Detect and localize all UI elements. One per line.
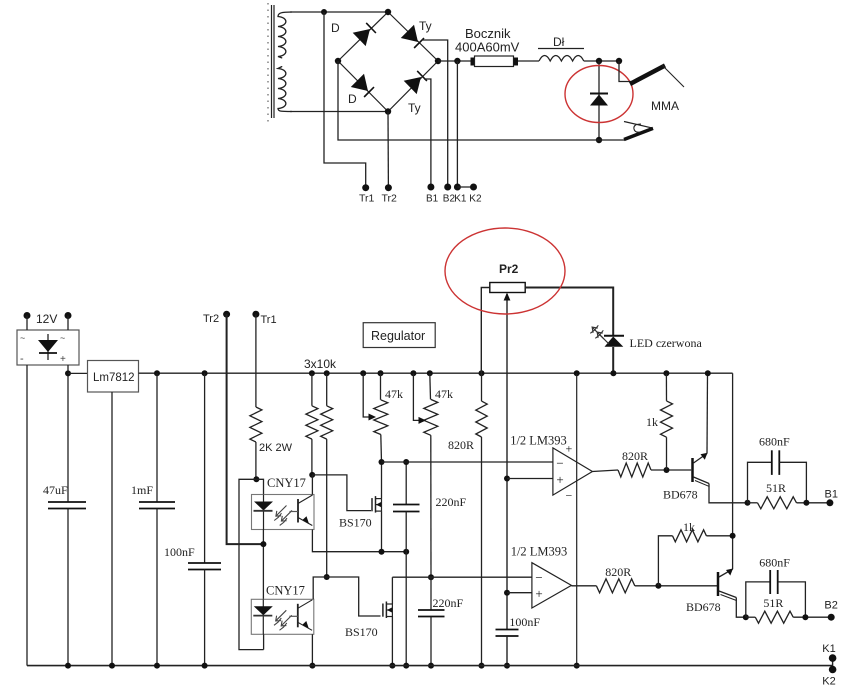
- wire comparator1 output: [592, 470, 618, 472]
- svg-text:CNY17: CNY17: [266, 584, 305, 598]
- resistor 10k #2: [324, 370, 330, 376]
- node junction top wire to Tr1: [321, 9, 327, 15]
- svg-text:Pr2: Pr2: [499, 262, 519, 276]
- svg-text:B1: B1: [426, 194, 439, 205]
- resistor 10k #1: [309, 370, 315, 376]
- wiper arrow 47k#1: [360, 370, 366, 376]
- svg-text:BD678: BD678: [663, 488, 698, 502]
- node bridge right: [435, 58, 441, 64]
- op-amp U1 1/2 LM393 (upper): [553, 448, 593, 495]
- svg-text:Regulator: Regulator: [371, 329, 425, 343]
- wire Ty1 gate to B2: [422, 40, 448, 187]
- svg-text:47k: 47k: [435, 387, 453, 401]
- node bridge plus to 7812 input: [65, 370, 71, 376]
- svg-text:820R: 820R: [622, 449, 648, 463]
- svg-text:−: −: [556, 456, 563, 471]
- svg-text:100nF: 100nF: [164, 545, 195, 559]
- wire 7812 ground lead: [111, 392, 113, 666]
- node source1: [379, 549, 385, 555]
- svg-text:+: +: [535, 586, 542, 601]
- wire comparator2 output: [571, 585, 596, 587]
- terminal Tr1 (top): [362, 184, 369, 191]
- node bridge left: [335, 58, 341, 64]
- svg-text:K1: K1: [454, 194, 467, 205]
- terminal K2 (top): [470, 184, 477, 191]
- terminal B2 (top): [444, 184, 451, 191]
- wire Pr2 left to rail: [481, 288, 490, 374]
- wire shunt to inductor: [518, 60, 539, 62]
- terminal Tr2 (top): [385, 184, 392, 191]
- wire BS170#1 source down: [381, 511, 383, 552]
- terminal Tr1 (bottom): [252, 311, 259, 318]
- svg-text:D: D: [331, 21, 340, 35]
- svg-text:1/2 LM393: 1/2 LM393: [510, 434, 567, 448]
- svg-text:Tr1: Tr1: [359, 193, 375, 205]
- resistor 820R (output 1): [618, 463, 651, 477]
- svg-text:+: +: [566, 442, 573, 456]
- wire BD678#2 collector to B2 line: [736, 598, 746, 618]
- wire opto1 cathode to node: [262, 530, 264, 600]
- svg-text:~: ~: [60, 333, 65, 343]
- wire Ty2 gate to B1: [424, 79, 431, 187]
- svg-text:+: +: [60, 354, 66, 365]
- terminal Tr2 (bottom): [223, 311, 230, 318]
- svg-text:1k: 1k: [646, 415, 658, 429]
- node opto2 emitter ground: [309, 663, 315, 669]
- node ground dots: [65, 663, 71, 669]
- wire LM393 supply vertical: [576, 373, 578, 665]
- wire Pr2 right to LED: [525, 288, 613, 336]
- resistor 47k #1: [378, 370, 384, 376]
- transformer T1: [268, 3, 292, 122]
- capacitor 220nF #2: [430, 577, 432, 610]
- node base1: [664, 467, 670, 473]
- svg-text:D: D: [348, 92, 357, 106]
- svg-text:Ty: Ty: [408, 101, 421, 115]
- wire gate1 path: [312, 475, 371, 511]
- node 10k1/collector1/gate1: [309, 472, 315, 478]
- svg-text:K1: K1: [822, 643, 835, 655]
- red circle around Pr2: [445, 228, 565, 314]
- svg-text:+: +: [556, 472, 563, 487]
- node freewheel diode top: [596, 58, 602, 64]
- resistor 820R (bleeder): [479, 370, 485, 376]
- svg-text:Lm7812: Lm7812: [93, 372, 135, 384]
- regulator Lm7812: [88, 361, 139, 393]
- svg-text:K2: K2: [469, 194, 482, 205]
- transistor BD678 #2: [717, 572, 720, 596]
- terminal B1 (top): [427, 184, 434, 191]
- transistor BS170 #1: [371, 498, 373, 511]
- shunt Bocznik 400A60mV: [471, 58, 476, 66]
- wire BS170#2 drain up: [391, 577, 393, 604]
- op-amp U2 1/2 LM393 (lower): [532, 563, 572, 608]
- node 47k2 / 220nF2 / minus2: [428, 574, 434, 580]
- resistor 1k #1: [663, 370, 669, 376]
- label Regulator: [363, 323, 435, 348]
- wire gate2 path: [327, 577, 381, 616]
- svg-text:51R: 51R: [766, 481, 786, 495]
- svg-text:680nF: 680nF: [759, 435, 790, 449]
- wire opto2 cathode bottom: [263, 634, 265, 649]
- wire +12V rail: [139, 372, 733, 374]
- svg-text:BS170: BS170: [339, 516, 372, 530]
- bridge rectifier 12V input box: [17, 330, 79, 365]
- svg-text:47uF: 47uF: [43, 483, 68, 497]
- node 220nF#2 ground: [428, 663, 434, 669]
- svg-text:2K 2W: 2K 2W: [259, 442, 293, 454]
- wire Tr2 top path: [387, 112, 389, 188]
- node 820R ground: [479, 663, 485, 669]
- node 220nF#1 ground: [403, 663, 409, 669]
- wire comparator1 plus input: [504, 476, 510, 482]
- svg-text:1/2 LM393: 1/2 LM393: [511, 545, 568, 559]
- terminal K1 (top): [454, 184, 461, 191]
- svg-text:400A60mV: 400A60mV: [455, 40, 520, 55]
- svg-text:-: -: [20, 353, 24, 365]
- resistor 2K 2W: [250, 407, 262, 442]
- wire anode jog into opto1: [256, 479, 263, 494]
- svg-text:B1: B1: [825, 489, 838, 501]
- svg-text:Tr2: Tr2: [203, 313, 219, 325]
- svg-text:B2: B2: [824, 600, 837, 612]
- transistor BD678 #1: [691, 458, 694, 482]
- wire bridge minus to ground rail: [26, 365, 28, 666]
- svg-text:820R: 820R: [605, 565, 631, 579]
- wire opto1 collector: [311, 475, 313, 495]
- node supply tap for comparators: [574, 370, 580, 376]
- svg-text:BS170: BS170: [345, 625, 378, 639]
- wire 820R1 to base: [651, 469, 691, 471]
- wire 7812 input: [68, 372, 88, 374]
- resistor 1k #2: [658, 536, 672, 586]
- svg-text:Tr1: Tr1: [261, 314, 277, 326]
- wire transformer bottom lead to bridge bottom node: [290, 111, 388, 113]
- resistor 51R #1: [748, 502, 758, 504]
- svg-text:12V: 12V: [36, 312, 57, 326]
- wire K1 vertical: [456, 61, 458, 187]
- optocoupler CNY17 #1: [252, 495, 315, 530]
- capacitor 47uF: [48, 501, 86, 503]
- terminal B2 (output): [828, 614, 835, 621]
- svg-text:1k: 1k: [683, 520, 695, 534]
- wire Tr1 top path: [324, 12, 366, 187]
- diode D1 (upper-left arm): [353, 29, 370, 46]
- electrode holder MMA: [630, 66, 665, 85]
- wire opto2 collector: [313, 577, 327, 599]
- node BS170#2 source ground: [389, 663, 395, 669]
- capacitor 100nF (wiper filter): [496, 629, 519, 631]
- snubber 680nF / 51R #1: [745, 500, 751, 506]
- resistor 820R (output 2): [596, 579, 634, 593]
- wire to electrode holder: [619, 61, 633, 82]
- svg-text:BD678: BD678: [686, 600, 721, 614]
- wire comparator1 minus input line: [382, 461, 553, 463]
- thyristor Ty1 (upper-right arm): [401, 25, 418, 42]
- wire Tr1 down to 2K2W: [255, 314, 257, 407]
- wire BD678#1 collector to B1 line: [709, 484, 748, 503]
- snubber 680nF / 51R #2: [743, 614, 749, 620]
- svg-text:Dł: Dł: [553, 35, 565, 49]
- svg-text:CNY17: CNY17: [267, 476, 306, 490]
- red circle around freewheel diode: [565, 66, 633, 123]
- svg-text:820R: 820R: [448, 438, 474, 452]
- svg-text:3x10k: 3x10k: [304, 357, 337, 371]
- capacitor 100nF (left): [202, 370, 208, 376]
- wire opto2 emitter to ground: [311, 634, 313, 665]
- node freewheel diode bottom: [596, 137, 602, 143]
- terminal 12V left: [24, 312, 31, 319]
- resistor 47k #2: [427, 370, 433, 376]
- wire BS170#2 source to ground: [391, 617, 393, 666]
- optocoupler CNY17 #2: [251, 599, 313, 634]
- wire rail end down to BD678#2 emitter: [732, 373, 734, 569]
- node minus line left end: [379, 459, 385, 465]
- node wiper ground: [504, 663, 510, 669]
- svg-text:220nF: 220nF: [436, 495, 467, 509]
- svg-text:Tr2: Tr2: [382, 193, 398, 205]
- LED czerwona: [604, 335, 624, 337]
- svg-text:220nF: 220nF: [433, 596, 464, 610]
- thyristor Ty2 (lower-right arm): [404, 77, 421, 94]
- freewheel diode (circled): [598, 61, 600, 140]
- wire bridge plus down / 47uF / ground: [67, 365, 69, 502]
- wire BD678#1 emitter to rail: [706, 373, 709, 453]
- node 1k2 to emitter line: [730, 533, 736, 539]
- diode D2 (lower-left arm): [351, 74, 368, 91]
- wire inductor to output node: [584, 60, 619, 62]
- node bridge bottom: [385, 108, 391, 114]
- terminal K1 (bottom): [832, 658, 834, 669]
- svg-text:−: −: [535, 570, 542, 585]
- terminal K2 (bottom): [829, 666, 837, 674]
- svg-text:Ty: Ty: [419, 19, 432, 33]
- svg-text:51R: 51R: [763, 596, 783, 610]
- terminal B1 (output): [826, 499, 833, 506]
- node 10k2/collector2/gate2: [324, 574, 330, 580]
- wire bridge diamond arms: [338, 12, 438, 112]
- wiper Pr2 down to comparators: [506, 294, 508, 630]
- svg-text:680nF: 680nF: [759, 555, 790, 569]
- svg-text:100nF: 100nF: [509, 615, 540, 629]
- node electrode branch: [616, 58, 622, 64]
- wire left return rail (anode1-cathode2): [239, 479, 264, 649]
- wire K1-K2: [457, 186, 473, 188]
- svg-text:47k: 47k: [385, 387, 403, 401]
- svg-text:LED czerwona: LED czerwona: [630, 336, 703, 350]
- svg-text:K2: K2: [822, 676, 835, 687]
- node K1 tap on output wire: [454, 58, 460, 64]
- wiper arrow 47k#2: [410, 370, 416, 376]
- node 220nF#1 top: [403, 459, 409, 465]
- capacitor 220nF #1: [405, 462, 407, 505]
- wire BS170#1 drain up: [381, 462, 383, 499]
- node 220nF#1 bottom: [403, 549, 409, 555]
- wire comparator2 minus input line: [392, 576, 532, 578]
- inductor Dl: [539, 56, 584, 62]
- node supply ground: [574, 663, 580, 669]
- wire transformer top lead to bridge top node: [290, 11, 388, 13]
- terminal 12V right: [65, 312, 72, 319]
- transistor BS170 #2: [382, 604, 384, 617]
- node cathode1/anode2: [260, 541, 266, 547]
- svg-text:~: ~: [20, 333, 25, 343]
- wire Tr2 to opto LEDs midpoint: [227, 314, 264, 544]
- wire bridge right node to shunt: [438, 60, 474, 62]
- wire 820R2 to base: [635, 585, 717, 587]
- capacitor 1mF: [154, 370, 160, 376]
- wire comparator2 plus input: [504, 590, 510, 596]
- svg-text:−: −: [566, 489, 573, 503]
- node LED to rail: [610, 370, 616, 376]
- svg-text:MMA: MMA: [651, 99, 679, 113]
- node opto1 anode: [253, 476, 259, 482]
- wire negative output line: [338, 61, 625, 140]
- work clamp: [624, 122, 653, 129]
- wire 12V terminals to box: [26, 316, 28, 331]
- wire ground rail: [27, 665, 833, 667]
- svg-text:1mF: 1mF: [131, 483, 153, 497]
- node base2: [655, 583, 661, 589]
- node bridge top: [385, 9, 391, 15]
- resistor 51R #2: [746, 616, 756, 618]
- wire source1/emitter1 line: [312, 530, 406, 552]
